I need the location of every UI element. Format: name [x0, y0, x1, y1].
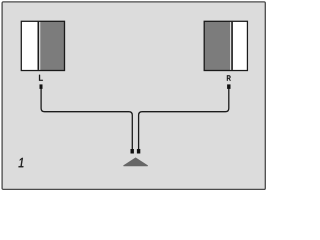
speaker R cabinet outline: [204, 21, 247, 70]
node L terminal square: [40, 84, 43, 89]
speaker R divider line: [231, 22, 233, 70]
plug R connector square: [137, 149, 140, 154]
label R: [227, 75, 231, 80]
figure number 1: [19, 158, 24, 167]
speaker R white half: [233, 22, 247, 70]
wire R: [139, 89, 229, 150]
speaker R divider gap: [230, 22, 231, 70]
wire L: [41, 89, 132, 150]
node R terminal square: [227, 84, 230, 89]
plug L connector square: [131, 149, 134, 154]
speaker L white half: [22, 22, 38, 70]
label L: [39, 75, 43, 81]
listener triangle: [124, 158, 148, 166]
speaker L divider line: [38, 22, 40, 70]
speaker L divider gap: [39, 22, 40, 70]
frame / panel background: [2, 2, 265, 190]
speaker L cabinet outline: [21, 21, 64, 70]
